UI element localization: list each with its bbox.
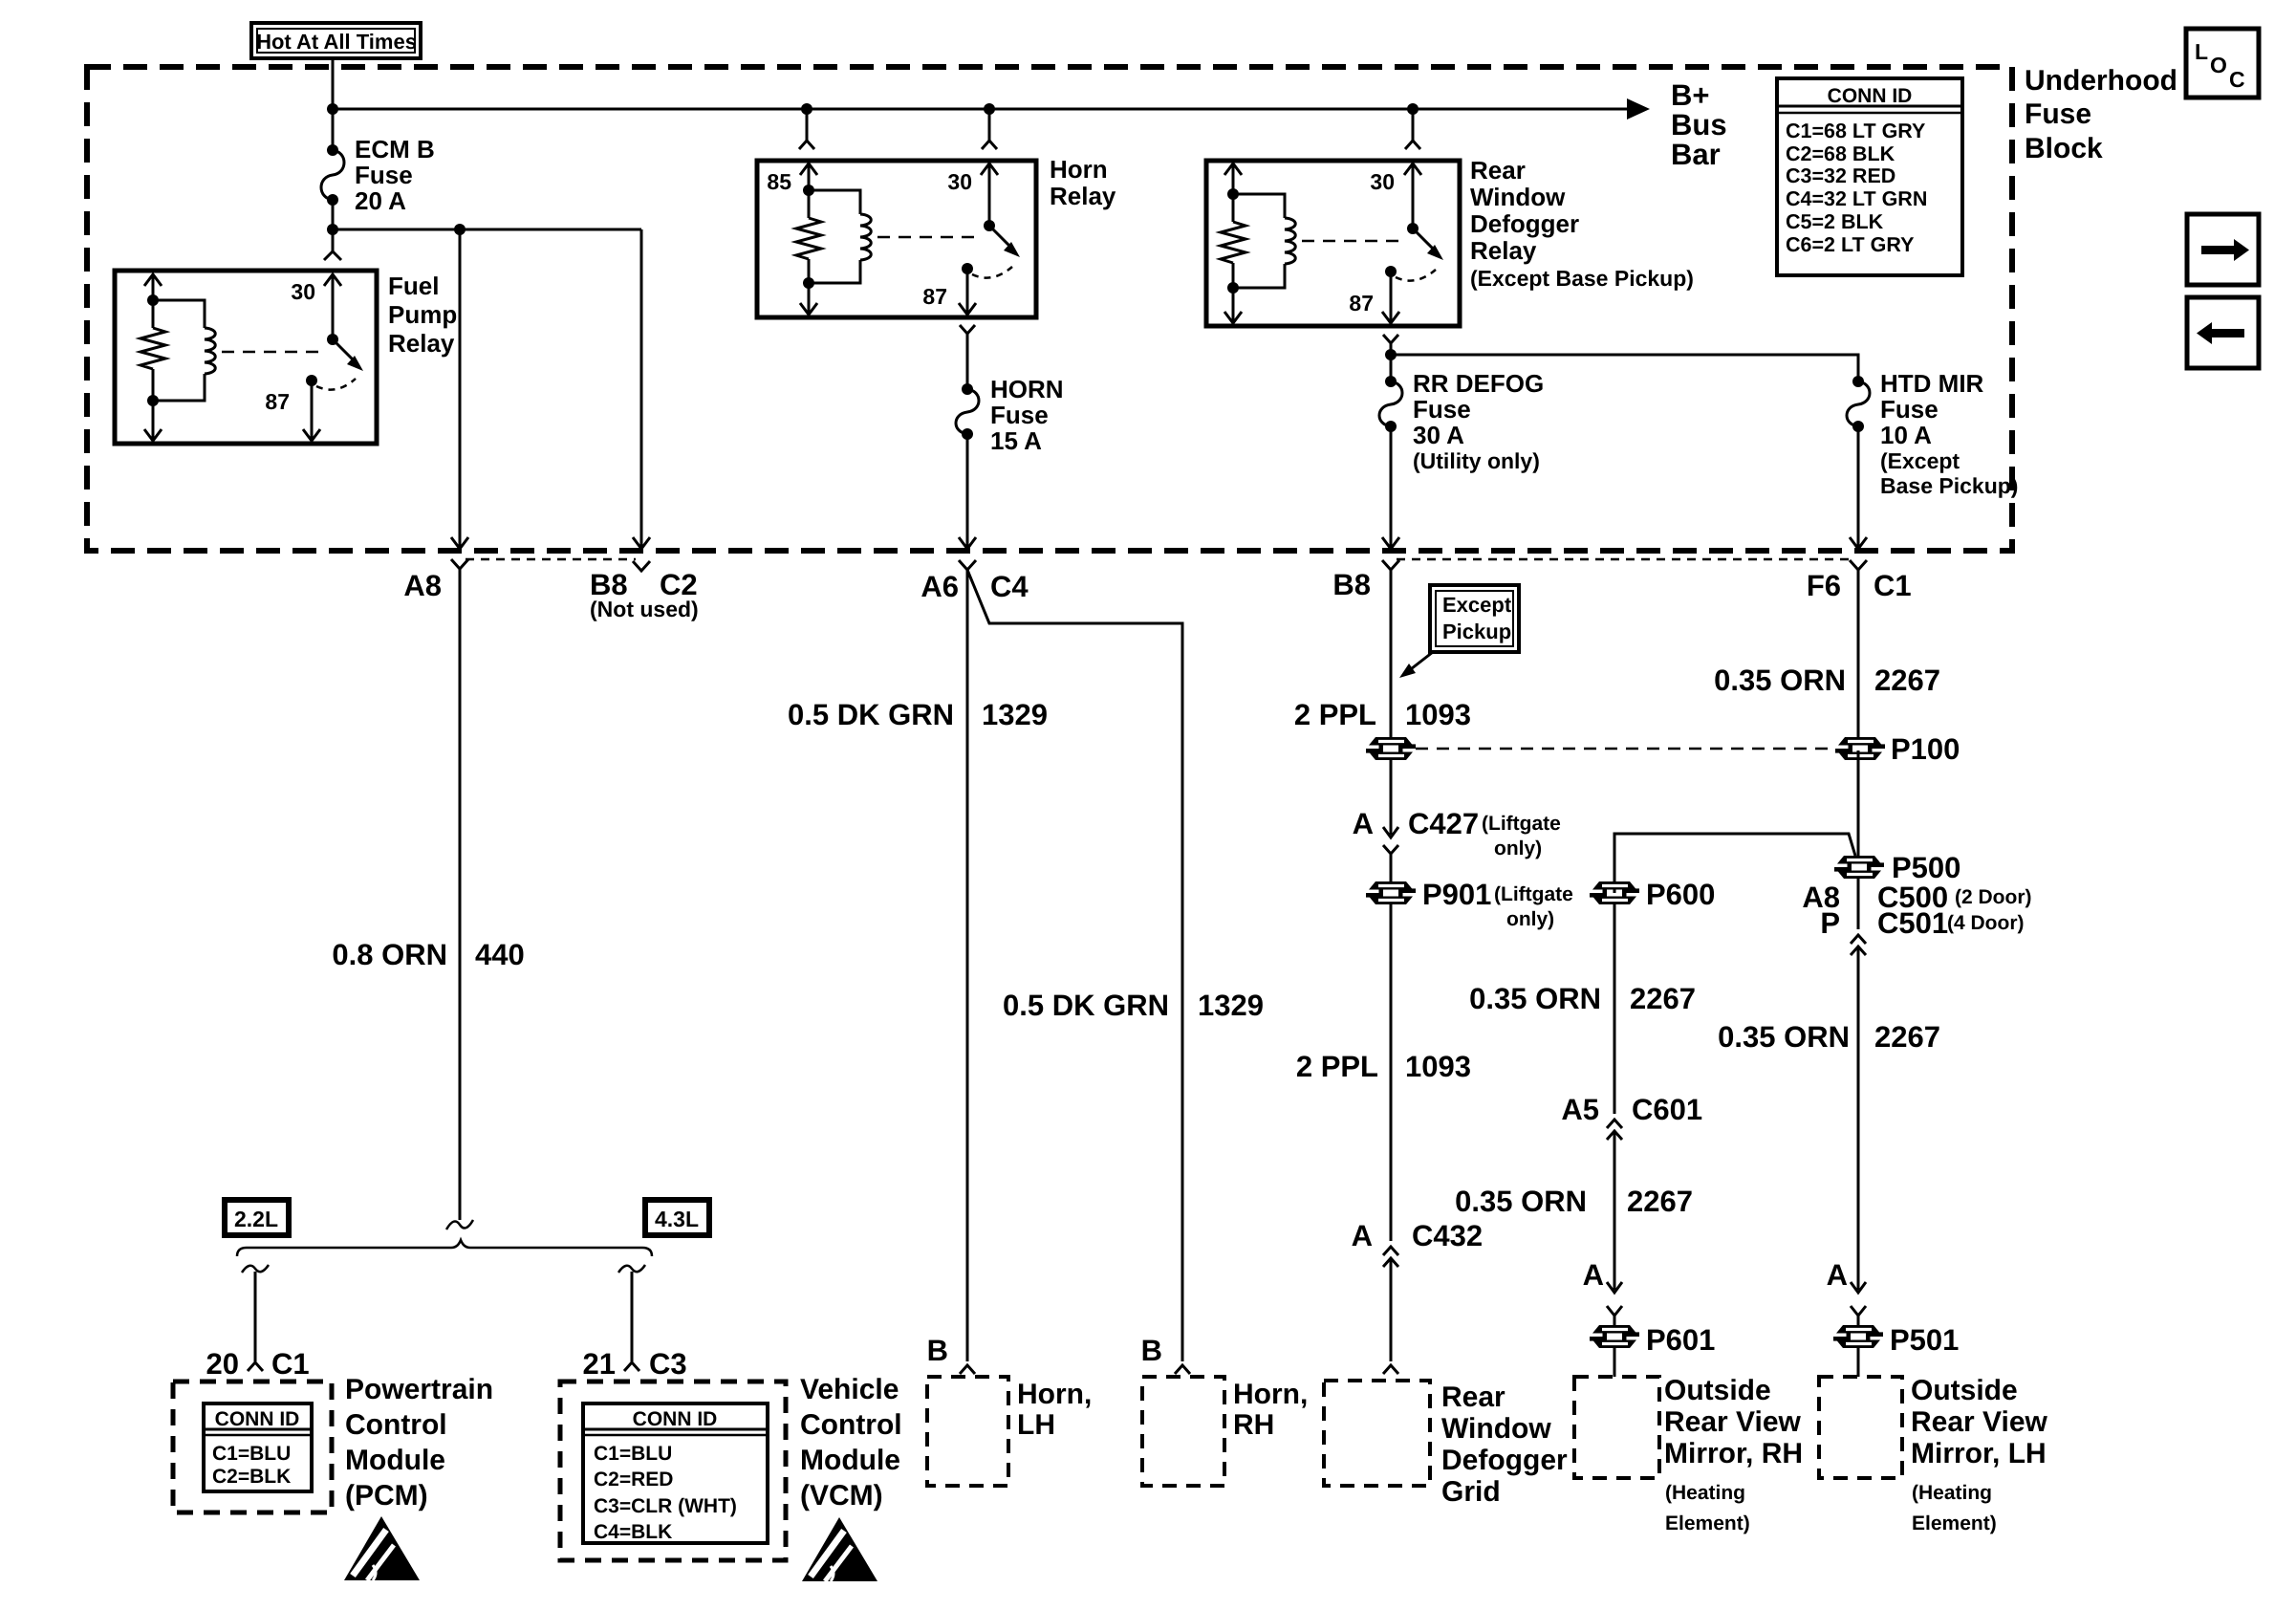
svg-text:Element): Element) [1912, 1512, 1997, 1534]
svg-text:ECM B: ECM B [355, 135, 435, 163]
svg-text:L: L [2195, 39, 2208, 64]
resistor (fuel relay) [141, 300, 165, 401]
arrowhead at A8 border crossing [451, 537, 468, 549]
svg-text:Fuse: Fuse [355, 161, 413, 189]
svg-text:A: A [1353, 807, 1374, 840]
svg-text:C3=CLR (WHT): C3=CLR (WHT) [594, 1495, 737, 1517]
svg-text:2267: 2267 [1627, 1185, 1693, 1218]
svg-text:Window: Window [1441, 1413, 1551, 1445]
B+ bus bar wire [333, 108, 1636, 111]
svg-text:0.35 ORN: 0.35 ORN [1718, 1020, 1850, 1054]
svg-text:0.35 ORN: 0.35 ORN [1469, 982, 1601, 1015]
wire bus to horn relay 85 [799, 109, 814, 149]
node junction to HTD MIR feed [1385, 349, 1397, 360]
node: bus junction horn 85 [801, 103, 812, 115]
defogger relay coil terminal arrow (top) [1224, 163, 1242, 194]
svg-text:Bar: Bar [1671, 138, 1721, 171]
dashed actuator link (defogger relay) [1302, 240, 1405, 243]
svg-text:B: B [1141, 1334, 1162, 1367]
labels A8 C500 (2 Door) / P C501 (4 Door) [1802, 881, 2031, 940]
svg-text:2 PPL: 2 PPL [1296, 1050, 1378, 1083]
svg-text:Grid: Grid [1441, 1476, 1501, 1508]
svg-text:RR DEFOG: RR DEFOG [1413, 369, 1544, 398]
label: 2 PPL 1093 (upper) [1294, 698, 1471, 731]
label: Vehicle Control Module (VCM) [800, 1374, 902, 1512]
svg-text:(4 Door): (4 Door) [1947, 912, 2025, 934]
svg-text:1093: 1093 [1405, 1050, 1471, 1083]
coil (defogger relay) [1233, 194, 1295, 288]
dashed actuator link (fuel relay) [222, 351, 325, 354]
svg-text:P100: P100 [1891, 732, 1960, 766]
svg-text:Mirror, RH: Mirror, RH [1664, 1438, 1803, 1469]
svg-text:30 A: 30 A [1413, 421, 1464, 449]
svg-text:LH: LH [1017, 1409, 1055, 1441]
wire: B8 C2 drop inside fuse block [640, 229, 643, 548]
svg-text:RH: RH [1233, 1409, 1274, 1441]
horn relay 87 output arrow [959, 269, 976, 315]
svg-text:C2=BLK: C2=BLK [212, 1466, 291, 1488]
label: Fuel Pump Relay [388, 272, 457, 358]
svg-text:30: 30 [1370, 169, 1395, 194]
ESD symbol (PCM) [344, 1516, 420, 1580]
label: Outside Rear View Mirror, RH (Heating Element) [1664, 1375, 1803, 1534]
svg-text:A: A [1827, 1258, 1848, 1292]
defogger relay switch contact [1385, 266, 1397, 277]
svg-text:Fuse: Fuse [1413, 395, 1471, 424]
svg-text:only): only) [1494, 838, 1542, 859]
component box: Powertrain Control Module (dashed) [173, 1382, 332, 1512]
svg-text:C3=32 RED: C3=32 RED [1786, 164, 1895, 187]
svg-text:10 A: 10 A [1880, 421, 1932, 449]
fuel relay coil terminal arrow (bottom) [144, 401, 162, 441]
connector A / P601 arrows [1583, 1258, 1622, 1326]
svg-text:Control: Control [800, 1409, 902, 1441]
label: 0.5 DK GRN 1329 (horn LH) [788, 698, 1048, 731]
inline connector P on defogger feed [1366, 737, 1416, 835]
connector chevron into Horn RH [1175, 1365, 1190, 1374]
node: junction below ECM B fuse [327, 224, 338, 235]
fuel relay switch pivot [327, 334, 338, 345]
svg-text:20 A: 20 A [355, 186, 406, 215]
node coil top (fuel relay) [147, 294, 159, 306]
svg-text:87: 87 [1349, 291, 1374, 315]
svg-text:Rear View: Rear View [1664, 1406, 1802, 1438]
fuel relay contact motion dashed arc [316, 379, 356, 390]
relay: Rear Window Defogger Relay box [1206, 161, 1460, 326]
relay: Fuel Pump Relay box [115, 271, 377, 444]
label: HORN Fuse 15 A [990, 375, 1064, 455]
label pin B8 / C2 (Not used) [590, 568, 699, 621]
svg-text:A8: A8 [403, 569, 442, 602]
svg-text:Vehicle: Vehicle [800, 1374, 899, 1405]
svg-text:2267: 2267 [1874, 664, 1940, 697]
label: 0.35 ORN 2267 (F6 lower) [1718, 1020, 1940, 1054]
svg-text:Bus: Bus [1671, 108, 1727, 141]
CONN ID table (VCM) [583, 1403, 768, 1543]
svg-text:Hot At All Times: Hot At All Times [256, 30, 417, 54]
svg-text:Module: Module [345, 1445, 445, 1476]
svg-text:87: 87 [922, 284, 947, 309]
svg-text:P501: P501 [1890, 1323, 1959, 1357]
svg-text:P600: P600 [1646, 878, 1715, 911]
arrowhead at B8 C2 border crossing [633, 537, 650, 549]
wire: horn LH feed [966, 570, 969, 1361]
horn relay contact motion dashed arc [972, 267, 1012, 278]
CONN ID table (PCM) [204, 1403, 312, 1491]
svg-text:Rear View: Rear View [1911, 1406, 2048, 1438]
label: Horn, RH [1233, 1379, 1308, 1441]
svg-text:Defogger: Defogger [1441, 1445, 1568, 1476]
svg-text:P500: P500 [1892, 851, 1960, 884]
ESD symbol (VCM) [802, 1517, 877, 1581]
connector C427: arrow and chevron [1383, 827, 1398, 881]
label pin A6 / C4 [921, 570, 1029, 603]
svg-text:C6=2 LT GRY: C6=2 LT GRY [1786, 233, 1914, 256]
svg-text:0.5 DK GRN: 0.5 DK GRN [788, 698, 954, 731]
fuse HORN 15 A [956, 383, 979, 549]
inline connector P601 [1590, 1325, 1639, 1377]
label A / C432 [1352, 1219, 1484, 1252]
label pin 21 / C3 [583, 1347, 687, 1381]
fuel relay terminal 30 arrow [324, 274, 341, 339]
svg-text:Relay: Relay [1470, 236, 1537, 265]
LOC reference box [2186, 29, 2259, 98]
svg-text:P: P [1820, 906, 1840, 940]
label: RR DEFOG Fuse 30 A (Utility only) [1413, 369, 1544, 473]
connector chevron below horn relay [960, 325, 975, 389]
svg-text:C4=BLK: C4=BLK [594, 1521, 672, 1543]
wire: feed to HTD MIR fuse [1391, 355, 1858, 381]
arrow from Except Pickup box to wire [1399, 652, 1433, 678]
svg-text:1329: 1329 [1198, 989, 1264, 1022]
Underhood Fuse Block dashed boundary [87, 67, 2012, 551]
svg-text:Outside: Outside [1664, 1375, 1771, 1406]
horn relay 30 terminal arrow [981, 163, 998, 226]
svg-text:F6: F6 [1807, 569, 1841, 602]
svg-text:C601: C601 [1632, 1093, 1702, 1126]
wire: 4.3L branch to VCM [618, 1265, 645, 1371]
svg-text:30: 30 [291, 279, 315, 304]
svg-text:Mirror, LH: Mirror, LH [1911, 1438, 2047, 1469]
svg-text:B+: B+ [1671, 78, 1710, 112]
svg-text:Fuse: Fuse [990, 401, 1049, 429]
label: Underhood Fuse Block [2025, 65, 2177, 164]
svg-text:Control: Control [345, 1409, 447, 1441]
nav box: arrow right [2187, 214, 2259, 285]
inline connector P600 [1590, 881, 1639, 1114]
svg-text:2267: 2267 [1630, 982, 1696, 1015]
label: 0.35 ORN 2267 (P600 upper) [1469, 982, 1696, 1015]
svg-text:B: B [927, 1334, 948, 1367]
node coil bottom (horn relay) [803, 277, 814, 289]
svg-text:Fuse: Fuse [2025, 98, 2091, 130]
fuel relay switch contact [306, 375, 317, 386]
svg-text:Base Pickup): Base Pickup) [1880, 473, 2018, 498]
svg-text:(PCM): (PCM) [345, 1480, 428, 1512]
label pin 20 / C1 [206, 1347, 310, 1381]
svg-text:C1: C1 [271, 1347, 310, 1381]
svg-text:4.3L: 4.3L [655, 1207, 699, 1231]
arrowhead B+ bus bar [1627, 98, 1650, 120]
fuel relay coil terminal arrow (top) [144, 274, 162, 300]
svg-text:CONN ID: CONN ID [633, 1408, 718, 1430]
svg-text:P901: P901 [1422, 878, 1491, 911]
engine split brace [237, 1240, 652, 1256]
fuse HTD MIR 10 A [1847, 376, 1870, 549]
svg-text:Relay: Relay [388, 329, 455, 358]
resistor (defogger relay) [1221, 194, 1245, 288]
label: HTD MIR Fuse 10 A (Except Base Pickup) [1880, 369, 2018, 498]
label: Rear Window Defogger Relay (Except Base Pickup) [1470, 156, 1694, 291]
svg-text:C5=2 BLK: C5=2 BLK [1786, 210, 1884, 233]
connector chevron to fuel pump relay 30 [324, 229, 341, 260]
svg-text:2 PPL: 2 PPL [1294, 698, 1376, 731]
connector chevron below defogger relay [1383, 335, 1398, 381]
svg-text:C1=BLU: C1=BLU [212, 1443, 291, 1465]
svg-text:(Liftgate: (Liftgate [1494, 883, 1573, 905]
svg-text:Relay: Relay [1050, 182, 1116, 210]
coil (horn relay) [809, 190, 871, 283]
svg-text:CONN ID: CONN ID [215, 1408, 300, 1430]
inline connector P500 [1834, 856, 1884, 929]
wire: A8 drop inside fuse block [459, 229, 462, 548]
wire break squiggle on A8 column [446, 1220, 473, 1229]
svg-text:(2 Door): (2 Door) [1955, 886, 2032, 908]
defogger relay coil arrow (bottom) [1224, 288, 1242, 323]
component box: Rear Window Defogger Grid (dashed) [1324, 1381, 1430, 1486]
fuel relay switch arm [333, 339, 363, 371]
defogger relay 30 terminal arrow [1404, 163, 1421, 228]
svg-text:C4: C4 [990, 570, 1029, 603]
svg-text:2267: 2267 [1874, 1020, 1940, 1054]
connector C432: chevron and arrow [1383, 1247, 1398, 1361]
coil (fuel relay) [153, 300, 215, 401]
svg-text:P601: P601 [1646, 1323, 1715, 1357]
dashed actuator link (horn relay) [877, 236, 982, 239]
svg-text:Fuel: Fuel [388, 272, 439, 300]
node: junction A8 branch [454, 224, 466, 235]
fuse RR DEFOG 30 A [1379, 376, 1402, 549]
connector chevron A8 below fuse block [451, 559, 468, 1220]
defogger relay contact motion dashed arc [1396, 270, 1436, 281]
svg-text:1329: 1329 [982, 698, 1048, 731]
node coil bottom (fuel relay) [147, 395, 159, 406]
svg-text:(Heating: (Heating [1912, 1482, 1992, 1504]
svg-text:Element): Element) [1665, 1512, 1750, 1534]
label: Horn Relay [1050, 155, 1116, 210]
connector chevron F6 C1 [1850, 560, 1867, 737]
svg-text:87: 87 [265, 389, 290, 414]
svg-text:C: C [2229, 67, 2245, 92]
inline connector P100 [1835, 737, 1885, 760]
svg-text:A: A [1352, 1219, 1373, 1252]
connector C500/C501 chevron and arrow [1851, 935, 1866, 1290]
label A5 / C601 [1561, 1093, 1702, 1126]
label: Rear Window Defogger Grid [1441, 1382, 1568, 1508]
wire: F6 column to P500 [1857, 751, 1860, 857]
label box: Except Pickup [1430, 585, 1519, 652]
svg-text:C1: C1 [1874, 569, 1912, 602]
connector chevron A6 C4 [959, 560, 976, 570]
inline connector P901 [1366, 881, 1416, 1241]
svg-text:Horn: Horn [1050, 155, 1108, 184]
node coil bottom (defogger relay) [1227, 282, 1239, 294]
label: 2 PPL 1093 (lower) [1296, 1050, 1471, 1083]
horn relay switch contact [962, 263, 973, 274]
svg-text:(Liftgate: (Liftgate [1482, 813, 1561, 835]
svg-text:Pump: Pump [388, 300, 457, 329]
label: 0.5 DK GRN 1329 (horn RH) [1003, 989, 1264, 1022]
label: Outside Rear View Mirror, LH (Heating Element) [1911, 1375, 2048, 1534]
label A / C427 (Liftgate only) [1353, 807, 1561, 859]
svg-text:Except: Except [1442, 593, 1512, 617]
nav box: arrow left [2187, 297, 2259, 368]
svg-text:(VCM): (VCM) [800, 1480, 883, 1512]
svg-text:Block: Block [2025, 133, 2103, 164]
svg-text:(Utility only): (Utility only) [1413, 448, 1540, 473]
svg-text:Window: Window [1470, 183, 1566, 211]
svg-text:85: 85 [767, 169, 791, 194]
inline connector P501 [1833, 1325, 1883, 1377]
svg-text:440: 440 [475, 938, 525, 971]
svg-text:O: O [2210, 53, 2227, 77]
wire bus to defogger relay 30 [1405, 109, 1420, 149]
connector chevron B8 C2 stub [633, 561, 650, 571]
wire: horn RH feed branch [967, 570, 1182, 1361]
wire: Hot At All Times feed [332, 58, 335, 109]
horn relay 85 terminal arrow [800, 163, 817, 190]
svg-text:(Heating: (Heating [1665, 1482, 1745, 1504]
horn relay coil arrow (bottom) [800, 283, 817, 315]
svg-text:C432: C432 [1412, 1219, 1483, 1252]
component box: Vehicle Control Module (dashed) [560, 1382, 786, 1560]
component box: Horn RH (dashed) [1142, 1377, 1224, 1486]
svg-text:20: 20 [206, 1347, 239, 1381]
connector chevron into defogger grid [1383, 1365, 1398, 1374]
svg-text:only): only) [1506, 908, 1554, 930]
svg-text:Powertrain: Powertrain [345, 1374, 493, 1405]
svg-text:A: A [1583, 1258, 1604, 1292]
svg-text:C501: C501 [1877, 906, 1948, 940]
svg-text:Horn,: Horn, [1017, 1379, 1092, 1410]
svg-text:30: 30 [947, 169, 972, 194]
label: 0.35 ORN 2267 (F6 upper) [1714, 664, 1940, 697]
svg-text:Rear: Rear [1441, 1382, 1505, 1413]
node: bus junction defogger 30 [1407, 103, 1419, 115]
svg-text:(Not used): (Not used) [590, 597, 699, 621]
label: ECM B Fuse 20 A [355, 135, 435, 215]
svg-text:A6: A6 [921, 570, 959, 603]
svg-text:CONN ID: CONN ID [1828, 85, 1913, 107]
svg-text:Module: Module [800, 1445, 900, 1476]
svg-text:Pickup: Pickup [1442, 620, 1511, 643]
horn relay switch arm [989, 226, 1020, 257]
svg-text:0.5 DK GRN: 0.5 DK GRN [1003, 989, 1169, 1022]
connector chevron B8 defogger [1382, 560, 1399, 737]
svg-text:Rear: Rear [1470, 156, 1526, 185]
label: Horn, LH [1017, 1379, 1092, 1441]
svg-text:(Except: (Except [1880, 448, 1960, 473]
svg-text:HORN: HORN [990, 375, 1064, 403]
fuel relay 87 output arrow [303, 381, 320, 441]
svg-text:(Except Base Pickup): (Except Base Pickup) [1470, 266, 1694, 291]
svg-text:C3: C3 [649, 1347, 687, 1381]
label: Powertrain Control Module (PCM) [345, 1374, 493, 1512]
component box: Outside Rear View Mirror LH (dashed) [1819, 1377, 1902, 1478]
label pin F6 / C1 [1807, 569, 1912, 602]
label box: Hot At All Times [251, 23, 421, 58]
svg-text:0.35 ORN: 0.35 ORN [1455, 1185, 1587, 1218]
label: 0.35 ORN 2267 (P600 lower) [1455, 1185, 1693, 1218]
thin dashed connector line A8-B8 [466, 558, 636, 561]
defogger relay switch pivot [1407, 223, 1419, 234]
connector chevron into Horn LH [960, 1365, 975, 1374]
node: bus junction horn 30 [984, 103, 995, 115]
node coil top (defogger relay) [1227, 188, 1239, 200]
wire bus to horn relay 30 [982, 109, 997, 149]
defogger relay switch arm [1413, 228, 1443, 260]
svg-text:2.2L: 2.2L [234, 1207, 278, 1231]
fuse ECM B 20 A [321, 109, 344, 229]
horn relay switch pivot [984, 220, 995, 231]
svg-text:1093: 1093 [1405, 698, 1471, 731]
svg-text:HTD MIR: HTD MIR [1880, 369, 1984, 398]
svg-text:A5: A5 [1561, 1093, 1599, 1126]
label box: 2.2L [225, 1200, 289, 1235]
svg-text:21: 21 [583, 1347, 616, 1381]
svg-text:B8: B8 [1332, 568, 1371, 601]
label P901 (Liftgate only) [1422, 878, 1573, 930]
label: B+ Bus Bar [1671, 78, 1727, 171]
svg-text:Outside: Outside [1911, 1375, 2018, 1406]
node coil top (horn relay) [803, 185, 814, 196]
svg-text:C2=RED: C2=RED [594, 1469, 673, 1490]
component box: Outside Rear View Mirror RH (dashed) [1574, 1377, 1659, 1478]
resistor (horn relay) [796, 190, 821, 283]
wire: 2.2L branch to PCM [242, 1265, 269, 1371]
svg-text:Fuse: Fuse [1880, 395, 1939, 424]
connector A / P501 arrows [1827, 1258, 1866, 1326]
component box: Horn LH (dashed) [927, 1377, 1008, 1486]
svg-text:Underhood: Underhood [2025, 65, 2177, 97]
svg-text:Defogger: Defogger [1470, 209, 1579, 238]
defogger relay 87 output arrow [1382, 272, 1399, 323]
dashed pass-through line P to P100 [1416, 748, 1836, 751]
label: 0.8 ORN 440 [332, 938, 524, 971]
svg-text:0.35 ORN: 0.35 ORN [1714, 664, 1846, 697]
node: bus junction at ECM B [327, 103, 338, 115]
svg-text:C1=BLU: C1=BLU [594, 1443, 672, 1465]
wire: branch to P600 column [1614, 834, 1855, 893]
svg-text:C427: C427 [1408, 807, 1479, 840]
thin dashed connector line B8-F6 [1397, 558, 1852, 561]
svg-text:C1=68 LT GRY: C1=68 LT GRY [1786, 120, 1925, 142]
svg-text:C2=68 BLK: C2=68 BLK [1786, 142, 1895, 165]
svg-text:Horn,: Horn, [1233, 1379, 1308, 1410]
svg-text:0.8 ORN: 0.8 ORN [332, 938, 447, 971]
relay: Horn Relay box [757, 161, 1036, 317]
svg-text:C4=32 LT GRN: C4=32 LT GRN [1786, 187, 1927, 210]
wire: branch to A8/B8 [333, 228, 641, 231]
CONN ID table (underhood fuse block) [1777, 78, 1962, 275]
svg-text:15 A: 15 A [990, 426, 1042, 455]
connector C601 chevron and arrow [1607, 1120, 1622, 1290]
label box: 4.3L [645, 1200, 709, 1235]
